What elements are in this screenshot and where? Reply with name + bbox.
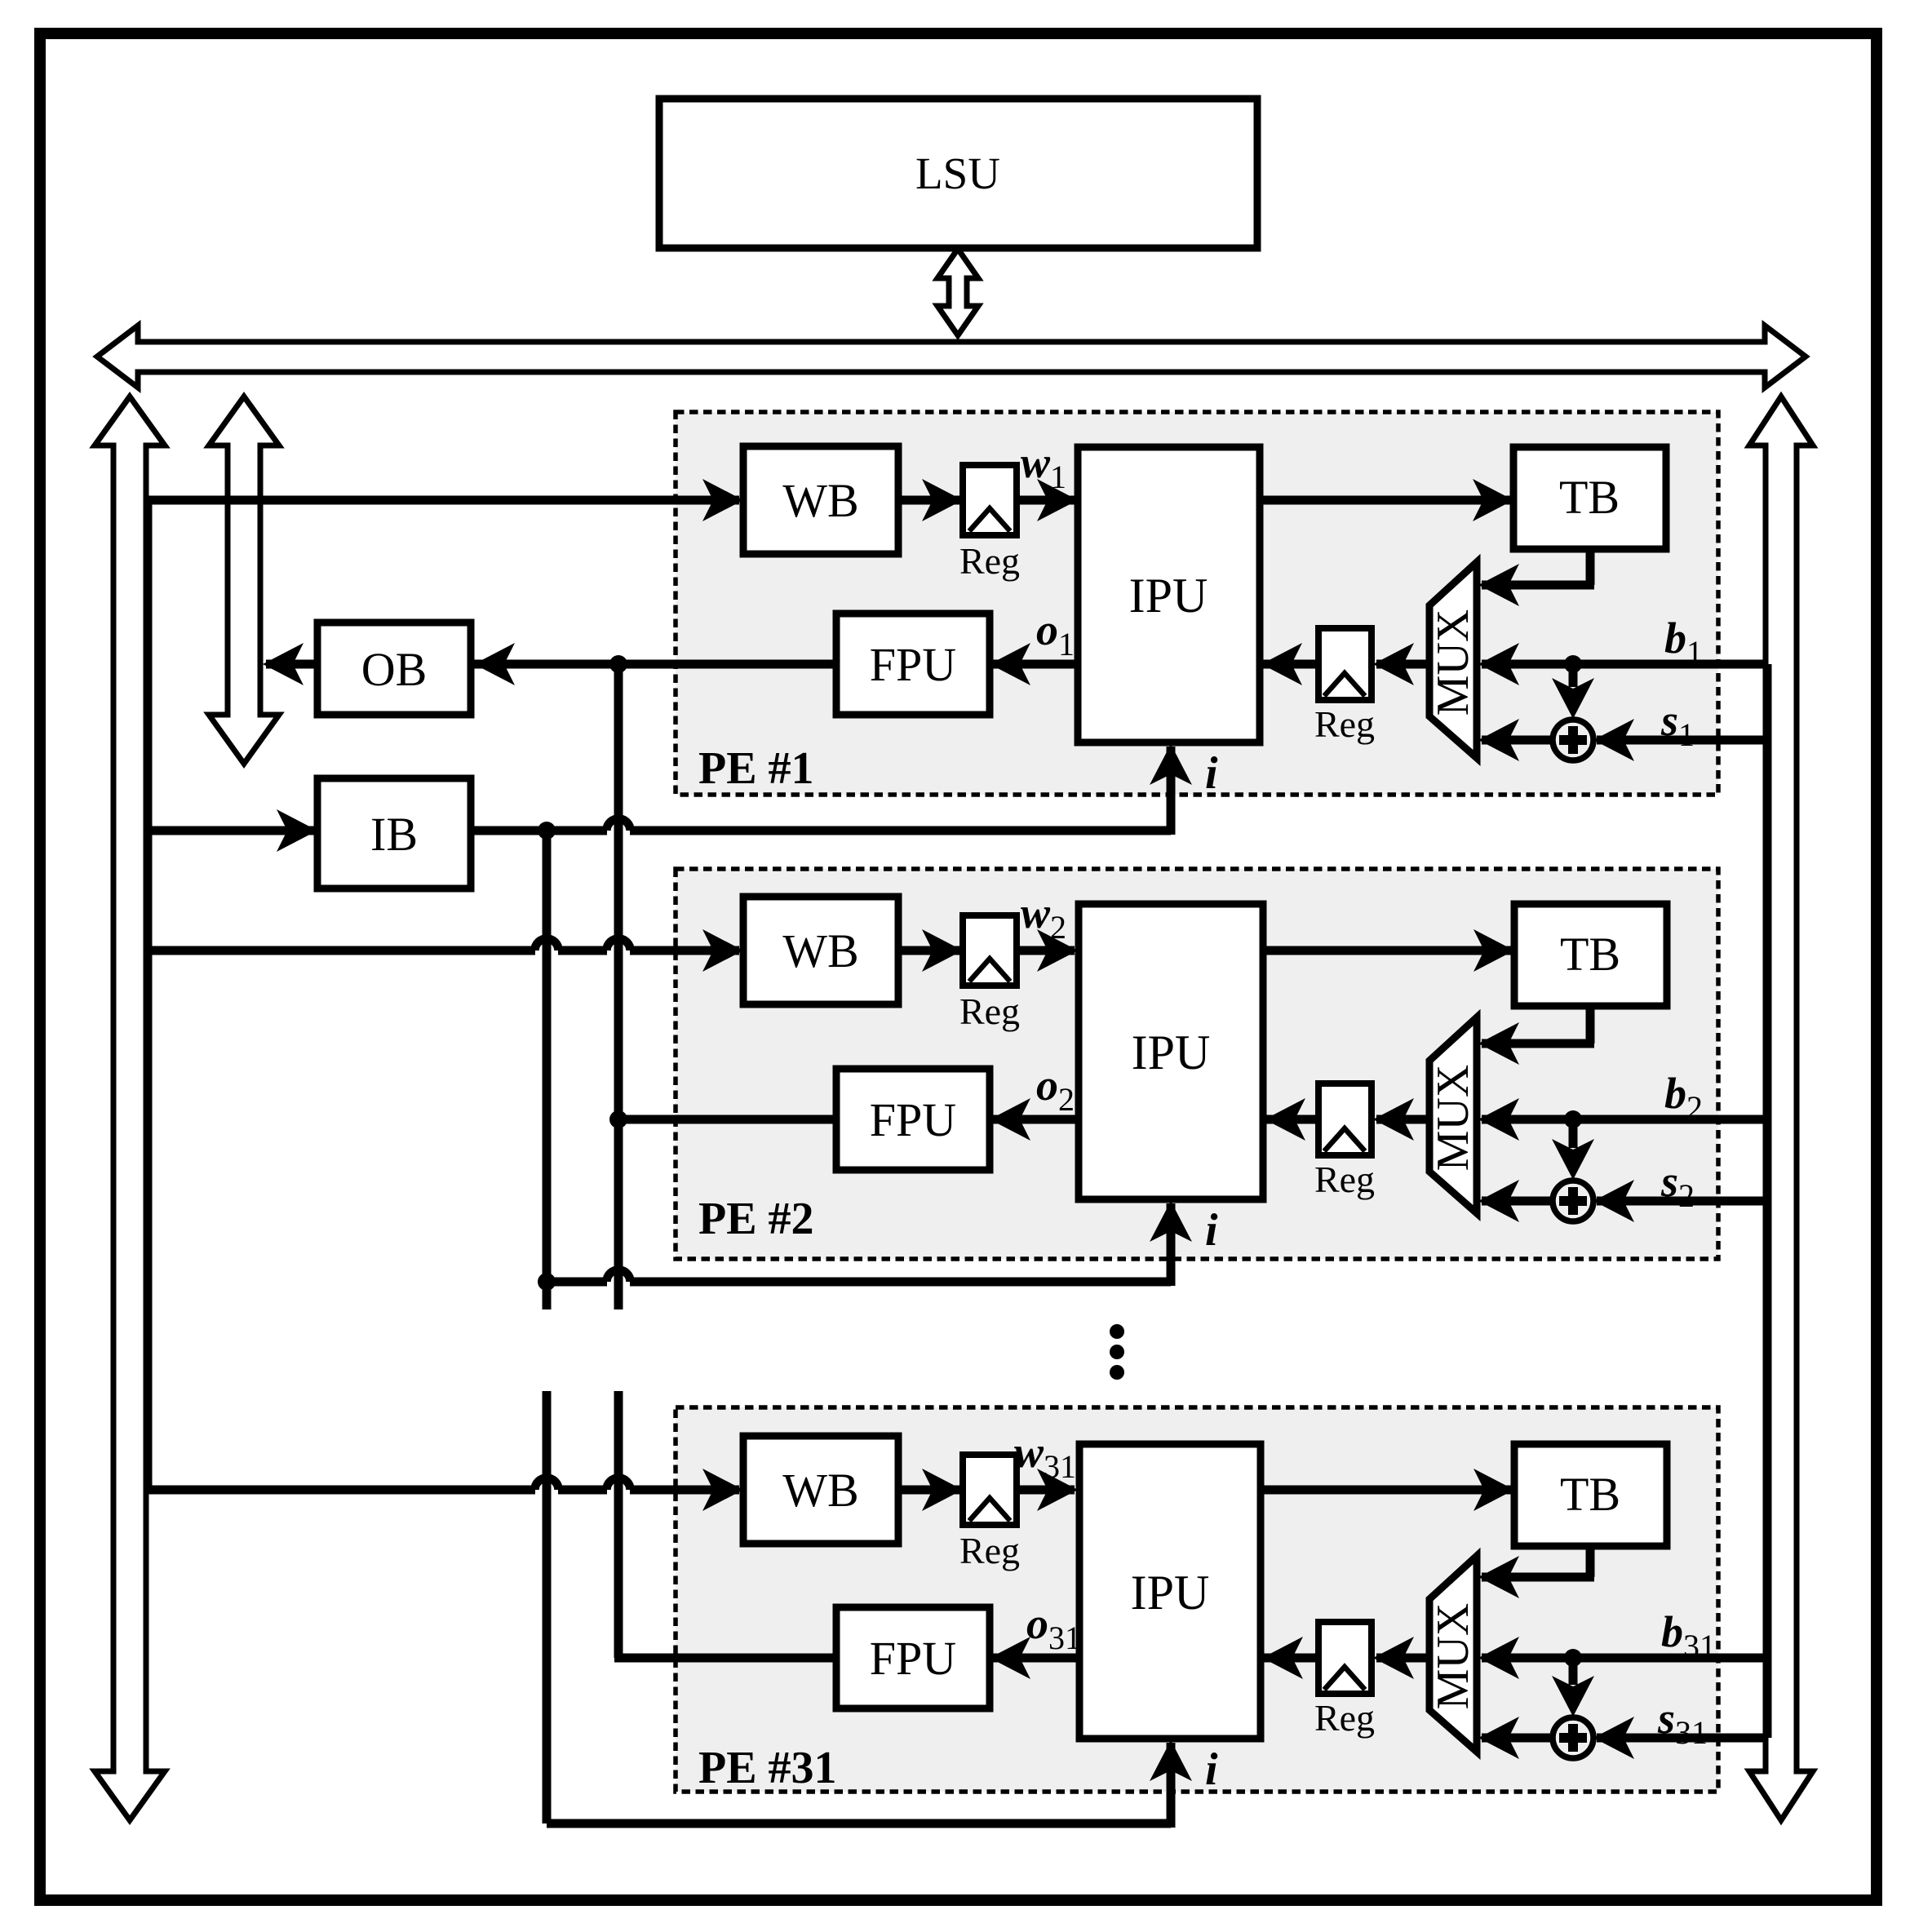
adder circle-plus PE2: [1553, 1181, 1593, 1221]
arrow into weight Reg PE1: [922, 479, 963, 521]
ellipsis continuation dots: [1110, 1324, 1124, 1339]
wire Reg to IPU PE1 (w1): [1017, 496, 1075, 505]
wire s31 from right bus to adder: [1597, 1734, 1766, 1743]
svg-text:TB: TB: [1560, 1468, 1620, 1521]
arrow s31 into adder: [1593, 1717, 1634, 1759]
arrow MUX-out into Reg PE1: [1373, 643, 1414, 685]
wire i branch to IPU#31: [547, 1819, 1171, 1828]
svg-text:TB: TB: [1559, 471, 1620, 524]
block FPU PE1: [836, 614, 990, 715]
bus right vertical bus (double arrow): [1749, 397, 1813, 1820]
wire bus to WB input PE1: [148, 496, 739, 505]
register Reg (weight) PE1: [963, 465, 1017, 535]
arrow b2 into MUX: [1478, 1098, 1519, 1141]
arrow into weight Reg PE2: [922, 929, 963, 972]
wire IPU to FPU PE1 (o1): [993, 660, 1078, 669]
block TB PE31: [1514, 1444, 1667, 1546]
bus left vertical bus B (double arrow): [209, 397, 279, 764]
block TB PE2: [1514, 904, 1667, 1006]
register Reg (operand) PE31: [1318, 1622, 1372, 1694]
wire IPU to FPU PE2 (o2): [993, 1115, 1079, 1124]
wire Reg to IPU operand port PE2: [1266, 1115, 1318, 1124]
wire adder to MUX PE1: [1482, 736, 1554, 745]
wire b31 from right bus to MUX: [1482, 1654, 1766, 1663]
svg-text:IPU: IPU: [1132, 1026, 1211, 1079]
svg-text:i: i: [1205, 1744, 1218, 1795]
svg-text:OB: OB: [361, 643, 428, 696]
mux MUX PE1: [1429, 562, 1477, 758]
arrow into adder top PE31: [1552, 1676, 1594, 1717]
svg-text:TB: TB: [1560, 928, 1620, 981]
arrow into adder top PE1: [1552, 678, 1594, 719]
wire FPU#2 output to OB line: [618, 1115, 836, 1124]
wire FPU#31 output to OB line: [614, 1654, 836, 1663]
wire WB to Reg PE1: [898, 496, 959, 505]
register Reg (weight) PE2: [963, 915, 1017, 986]
svg-text:Reg: Reg: [959, 990, 1020, 1032]
svg-text:Reg: Reg: [959, 1530, 1020, 1571]
arrow into IPU operand port PE2: [1265, 1098, 1305, 1141]
arrow into FPU PE31: [990, 1637, 1030, 1679]
junction dot FPU#2 output: [609, 1110, 627, 1128]
svg-text:IPU: IPU: [1129, 569, 1208, 623]
svg-text:MUX: MUX: [1428, 1603, 1478, 1710]
svg-text:MUX: MUX: [1428, 609, 1478, 716]
wire WB to Reg PE2: [898, 946, 959, 955]
block OB output buffer: [317, 623, 471, 715]
arrow into adder top PE2: [1552, 1139, 1594, 1180]
arrow TB-stub into MUX PE31: [1478, 1556, 1519, 1598]
wire s2 from right bus to adder: [1597, 1197, 1766, 1206]
arrow into IPU weight port PE31: [1037, 1469, 1078, 1511]
block IPU PE1: [1078, 447, 1260, 742]
register Reg (operand) PE1: [1318, 628, 1372, 700]
wire Reg to IPU PE2 (w2): [1017, 946, 1075, 955]
block IB input buffer: [317, 778, 471, 888]
junction dot b1: [1564, 655, 1582, 673]
wire MUX to Reg PE1: [1376, 660, 1429, 669]
block WB PE31: [743, 1436, 898, 1544]
wire IPU to TB PE2: [1263, 946, 1511, 955]
block IPU PE2: [1079, 904, 1263, 1199]
arrow into IB: [277, 809, 317, 852]
arrow s1 into adder: [1593, 719, 1634, 761]
block TB PE1: [1513, 447, 1666, 549]
svg-text:PE #31: PE #31: [698, 1743, 837, 1793]
wire i branch to IPU#2: [547, 1278, 607, 1287]
PE #1 processing element boundary: [676, 412, 1718, 795]
arrow into OB right side: [474, 643, 515, 685]
arrow OB out into left bus B: [263, 643, 304, 685]
block FPU PE31: [836, 1607, 990, 1708]
arrow adder-out into MUX PE2: [1478, 1180, 1519, 1222]
wire IPU to TB PE1: [1260, 496, 1510, 505]
bus left vertical bus A (double arrow): [95, 397, 165, 1820]
arrow i into IPU PE2: [1150, 1201, 1192, 1242]
svg-text:i: i: [1205, 748, 1218, 799]
svg-text:PE #2: PE #2: [698, 1194, 814, 1244]
wire Reg to IPU PE31 (w31): [1017, 1486, 1075, 1495]
arrow i into IPU PE31: [1150, 1740, 1192, 1781]
wire bus to WB input PE31 (hops over IB/OB lines): [148, 1486, 535, 1495]
svg-text:WB: WB: [782, 924, 858, 977]
wire b2 branch down to adder: [1569, 1119, 1578, 1148]
wire b1 from right bus to MUX: [1482, 660, 1766, 669]
block FPU PE2: [836, 1069, 990, 1170]
arrow into IPU weight port PE1: [1037, 479, 1078, 521]
wire bus to WB input PE2 (hops over IB/OB lines): [148, 946, 535, 955]
arrow into WB PE2: [702, 929, 743, 972]
wire MUX to Reg PE31: [1376, 1654, 1429, 1663]
wire b1 branch down to adder: [1569, 664, 1578, 687]
wire TB down-stub PE2: [1586, 1003, 1595, 1044]
wire IB broadcast vertical line (lower): [543, 1391, 552, 1823]
wire FPU#1 output to OB: [471, 660, 836, 669]
arrow into TB PE1: [1473, 479, 1513, 521]
wire IB output to IPU#1 input (i): [471, 826, 607, 835]
arrow TB-stub into MUX PE2: [1478, 1022, 1519, 1065]
arrow adder-out into MUX PE1: [1478, 719, 1519, 761]
wire IB broadcast vertical line (upper): [543, 831, 552, 1309]
arrow s2 into adder: [1593, 1180, 1634, 1222]
arrow into IPU operand port PE31: [1262, 1637, 1303, 1679]
bus horizontal system bus (double arrow): [97, 326, 1806, 388]
wire IPU to FPU PE31 (o31): [993, 1654, 1079, 1663]
svg-text:FPU: FPU: [870, 638, 956, 691]
arrow into weight Reg PE31: [922, 1469, 963, 1511]
wire OB collect vertical line (upper): [614, 666, 623, 1309]
arrow into TB PE31: [1473, 1469, 1514, 1511]
register Reg (weight) PE31: [963, 1455, 1017, 1525]
wire b2 from right bus to MUX: [1482, 1115, 1766, 1124]
wire WB to Reg PE31: [898, 1486, 959, 1495]
wire IPU to TB PE31: [1261, 1486, 1511, 1495]
wire TB down-stub PE1: [1586, 546, 1595, 585]
svg-text:i: i: [1205, 1205, 1218, 1256]
svg-text:Reg: Reg: [1314, 703, 1375, 745]
arrow into FPU PE1: [990, 643, 1030, 685]
arrow into WB PE1: [702, 479, 743, 521]
wire b31 branch down to adder: [1569, 1658, 1578, 1685]
block LSU load-store unit: [659, 99, 1257, 248]
block IPU PE31: [1079, 1444, 1261, 1739]
arrow into IPU weight port PE2: [1037, 929, 1078, 972]
adder circle-plus PE1: [1553, 720, 1593, 760]
svg-text:FPU: FPU: [870, 1632, 956, 1685]
PE #2 processing element boundary: [676, 869, 1718, 1259]
wire adder to MUX PE2: [1482, 1197, 1554, 1206]
arrow MUX-out into Reg PE2: [1373, 1098, 1414, 1141]
junction dot OB input: [609, 655, 627, 673]
arrow b31 into MUX: [1478, 1637, 1519, 1679]
svg-text:PE #1: PE #1: [698, 743, 814, 794]
mux MUX PE31: [1429, 1556, 1477, 1752]
arrow TB-stub into MUX PE1: [1478, 564, 1519, 606]
svg-text:WB: WB: [782, 474, 858, 527]
arrow b1 into MUX: [1478, 643, 1519, 685]
arrow into TB PE2: [1473, 929, 1514, 972]
wire Reg to IPU operand port PE1: [1263, 660, 1318, 669]
arrow into WB PE31: [702, 1469, 743, 1511]
wire right bus feed line: [1763, 664, 1772, 1738]
svg-text:Reg: Reg: [959, 540, 1020, 582]
svg-text:LSU: LSU: [915, 148, 1000, 198]
wire OB collect vertical line (lower): [614, 1391, 623, 1658]
junction dot b31: [1564, 1649, 1582, 1667]
arrow MUX-out into Reg PE31: [1373, 1637, 1414, 1679]
wire Reg to IPU operand port PE31: [1264, 1654, 1318, 1663]
mux MUX PE2: [1429, 1017, 1477, 1213]
wire left bus to IB input: [148, 826, 314, 835]
svg-text:Reg: Reg: [1314, 1697, 1375, 1739]
wire TB down-stub PE31: [1586, 1543, 1595, 1577]
svg-text:IPU: IPU: [1131, 1566, 1210, 1620]
wire s1 from right bus to adder: [1597, 736, 1766, 745]
junction dot i branch PE2: [538, 1273, 556, 1291]
block WB PE2: [743, 897, 898, 1004]
arrow into FPU PE2: [990, 1098, 1030, 1141]
wire OB output to left bus: [266, 660, 317, 669]
wire weight-broadcast vertical line: [144, 500, 153, 1490]
junction dot IB output: [538, 822, 556, 840]
svg-text:WB: WB: [782, 1464, 858, 1517]
svg-text:FPU: FPU: [870, 1093, 956, 1146]
svg-text:Reg: Reg: [1314, 1159, 1375, 1200]
arrow i into IPU PE1: [1150, 744, 1192, 785]
block WB PE1: [743, 446, 898, 554]
PE #31 processing element boundary: [676, 1407, 1718, 1792]
svg-text:IB: IB: [370, 808, 418, 861]
arrow adder-out into MUX PE31: [1478, 1717, 1519, 1759]
bus LSU-to-system-bus link (double arrow): [937, 249, 978, 335]
arrow into IPU operand port PE1: [1261, 643, 1302, 685]
adder circle-plus PE31: [1553, 1717, 1593, 1758]
wire MUX to Reg PE2: [1376, 1115, 1429, 1124]
junction dot b2: [1564, 1110, 1582, 1128]
register Reg (operand) PE2: [1318, 1083, 1372, 1155]
svg-text:MUX: MUX: [1428, 1065, 1478, 1172]
wire adder to MUX PE31: [1482, 1734, 1554, 1743]
